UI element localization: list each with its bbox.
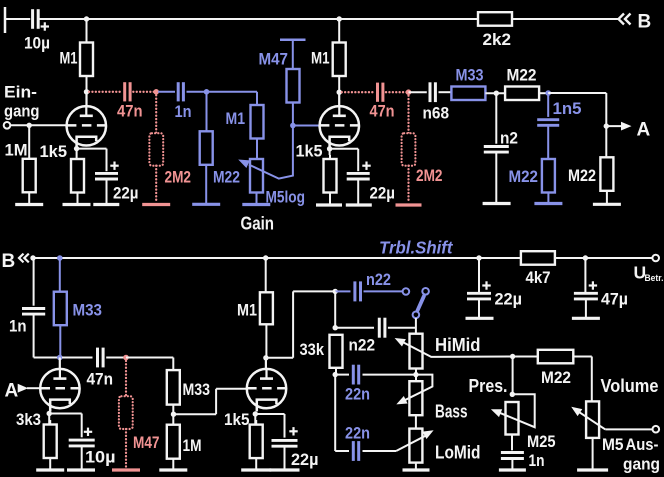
svg-text:47n: 47n	[117, 102, 143, 121]
svg-text:M47: M47	[133, 433, 160, 452]
svg-text:1n: 1n	[9, 317, 27, 336]
arrow A out	[621, 122, 632, 131]
svg-text:gang: gang	[4, 102, 40, 121]
ground blue M22	[192, 203, 220, 206]
wire anode node into tube V1	[85, 92, 87, 116]
svg-text:47n: 47n	[87, 370, 114, 389]
resistor M33 (blue, V3 anode load)	[54, 292, 102, 326]
wiper Bass	[396, 375, 432, 405]
resistor M47 (red dashed)	[119, 396, 160, 452]
resistor M33 (V3 load divider)	[167, 370, 210, 405]
ground red 2M2 b	[396, 203, 422, 206]
wiper Pres	[491, 394, 535, 427]
svg-text:gang: gang	[623, 455, 660, 474]
wire input to V1 grid	[10, 124, 67, 126]
wire 1n to A row	[34, 314, 60, 358]
wire n68 to M33	[439, 91, 452, 93]
wire node to M22 out	[513, 356, 538, 358]
wire red dotted node A2 down	[407, 92, 409, 133]
svg-text:10µ: 10µ	[24, 34, 50, 53]
wire switch to HiMid	[415, 318, 417, 334]
wire cathode to 1k5 V4	[254, 414, 257, 425]
wire junction to V4 grid	[174, 389, 247, 414]
resistor M22 (blue, gain divider)	[200, 131, 240, 186]
node HiMid wiper M22 out	[510, 354, 515, 359]
svg-text:HiMid: HiMid	[435, 335, 481, 355]
node blue gain top	[204, 89, 210, 95]
svg-text:M1: M1	[311, 49, 330, 68]
wire blue M22 shunt to ground	[547, 193, 549, 203]
wire top supply rail	[38, 18, 478, 20]
svg-text:22µ: 22µ	[291, 450, 319, 469]
resistor M47 (blue)	[259, 50, 300, 103]
wire node A2 to n68	[409, 91, 427, 93]
ground 1M	[15, 203, 43, 206]
potentiometer M5log (Gain pot)	[250, 159, 305, 207]
node red A3	[123, 355, 129, 361]
node M33 1M junction	[171, 412, 176, 417]
capacitor 1n (blue)	[175, 82, 192, 121]
wire red dotted 2M2 to ground	[155, 166, 157, 203]
svg-text:Betr.: Betr.	[645, 273, 664, 284]
capacitor n68	[423, 82, 450, 122]
wire arrow to A	[606, 125, 623, 127]
svg-text:M25: M25	[527, 432, 556, 451]
resistor 1M (divider)	[167, 425, 202, 459]
svg-text:22n: 22n	[345, 385, 370, 404]
node V2 cathode	[327, 146, 332, 151]
resistor M1 (V1 anode load)	[60, 43, 94, 77]
capacitor 1n5 (blue)	[537, 99, 581, 125]
wire top supply rail left end bar	[4, 7, 7, 33]
wire blue node right and down	[207, 92, 258, 105]
resistor M22 (horizontal, filter)	[505, 66, 539, 101]
svg-text:M47: M47	[259, 50, 289, 69]
svg-text:M1: M1	[237, 301, 257, 320]
capacitor 22n (blue, upper)	[345, 365, 370, 404]
wire A arrow to V3 grid	[27, 387, 40, 389]
ground 22u V4	[270, 468, 300, 471]
ground 3k3	[36, 468, 64, 471]
node M1b top	[337, 16, 342, 21]
potentiometer Volume	[586, 376, 658, 438]
capacitor 1n (Pres)	[501, 432, 556, 470]
off-page chevron B top right	[619, 14, 631, 25]
capacitor 22n (blue, lower)	[345, 424, 370, 461]
node HiMid bottom	[413, 372, 418, 377]
wire blue grid node to V2	[293, 125, 320, 127]
ground M22 end	[593, 203, 621, 206]
svg-text:M22: M22	[568, 166, 596, 185]
node blue V2 grid	[290, 123, 296, 129]
ground 47u rail	[572, 317, 600, 320]
node V4 anode	[263, 355, 268, 360]
wire red dotted 47n to node A2	[386, 91, 409, 93]
potentiometer Bass	[409, 381, 467, 421]
wire blue down to 1n5	[547, 93, 549, 117]
wire node to R 1M	[28, 125, 30, 159]
label U Betr.	[634, 263, 664, 285]
wire 4k7 to U	[556, 257, 652, 259]
svg-text:M33: M33	[73, 301, 103, 320]
svg-text:Ein-: Ein-	[4, 83, 37, 102]
wire blue node to A corner	[548, 93, 606, 126]
wire red dotted node down	[155, 92, 157, 133]
triode V4	[247, 368, 286, 411]
svg-text:47µ: 47µ	[601, 290, 628, 309]
svg-text:1n: 1n	[175, 102, 192, 121]
wire blue B rail to M33	[59, 258, 61, 292]
node V4 cathode	[253, 411, 258, 416]
resistor 33k	[300, 335, 343, 368]
wire 1n Pres to ground	[511, 459, 513, 470]
wire 1k5 V2 to ground	[329, 193, 331, 205]
ground red 2M2	[142, 203, 170, 206]
wire B rail to M1c	[265, 258, 267, 292]
capacitor n2	[484, 129, 518, 153]
wiper HiMid	[395, 338, 513, 357]
svg-text:n68: n68	[423, 104, 450, 123]
wire M22 end to ground	[606, 191, 608, 203]
node tone stack top	[333, 289, 338, 294]
svg-text:1M: 1M	[183, 436, 202, 455]
svg-text:22µ: 22µ	[370, 184, 396, 203]
wire cathode node to 1k5	[76, 149, 78, 159]
wire 22u V2 to ground	[357, 179, 359, 204]
node V1 anode	[84, 89, 89, 94]
switch lever Trbl.Shift	[418, 296, 424, 310]
wire cathode to 1k5 V2	[329, 149, 331, 159]
wire blue node to n22 cap	[335, 290, 350, 292]
wire 10u to ground	[81, 446, 83, 469]
node 33k bottom	[333, 372, 338, 377]
ground n2	[483, 202, 511, 205]
wire blue node to 1n	[158, 91, 175, 93]
terminal switch pole	[403, 288, 410, 295]
wire Pres to 1n	[511, 435, 513, 451]
triode V1	[67, 106, 106, 149]
wire blue n22 to switch	[364, 290, 403, 292]
wire blue bar to M47	[292, 40, 294, 69]
node input 1M junction	[27, 123, 32, 128]
wire rail to R M1a	[86, 19, 88, 43]
svg-text:1k5: 1k5	[224, 410, 250, 429]
svg-text:Aus-: Aus-	[626, 435, 659, 454]
ground 10u	[67, 468, 95, 471]
svg-text:2k2: 2k2	[483, 30, 512, 49]
ground 22u rail	[466, 317, 494, 320]
capacitor 22µ (V4 cathode bypass)	[272, 427, 319, 469]
ground 22u V2	[346, 203, 372, 206]
wire red dotted 47n to node	[133, 91, 156, 93]
svg-text:1M: 1M	[5, 141, 28, 160]
label Trbl.Shift	[379, 238, 454, 258]
wire node to n22 white	[335, 327, 374, 329]
resistor M1 (V2 anode load)	[311, 43, 346, 77]
svg-text:47n: 47n	[370, 102, 395, 121]
wire n2 to ground	[495, 152, 497, 202]
resistor 1k5 (V2 cathode)	[296, 142, 337, 193]
label M5 Ausgang	[602, 435, 660, 474]
terminal switch arm end	[413, 312, 420, 319]
svg-text:22n: 22n	[345, 424, 370, 443]
svg-text:1k5: 1k5	[296, 142, 323, 161]
wire red node to M33b	[126, 358, 173, 371]
wire blue pot to ground	[256, 193, 258, 204]
resistor M22 (output series)	[538, 350, 574, 387]
svg-text:M33: M33	[183, 380, 211, 399]
wire cathode node to 22u V4	[255, 414, 284, 438]
wire cathode node to 22u	[77, 149, 107, 172]
wire blue node down to M22	[206, 92, 208, 132]
node Pres top	[510, 392, 515, 397]
svg-text:22µ: 22µ	[113, 184, 139, 203]
resistor M22 (end shunt)	[568, 157, 613, 191]
wire 22u V4 to ground	[284, 446, 286, 469]
resistor 4k7 (series in B rail)	[521, 251, 555, 287]
label A (bottom left)	[5, 381, 19, 402]
wire red dotted M47 to ground	[125, 429, 127, 469]
resistor 1k5 (V1 cathode)	[40, 142, 85, 193]
ground blue M5log	[242, 203, 270, 206]
wire A node to M22 end	[605, 126, 607, 157]
wire blue M1 to pot	[256, 139, 258, 160]
ground blue M22 shunt	[534, 202, 562, 205]
arrow A in	[18, 384, 29, 393]
wire Volume to ground	[592, 438, 594, 469]
wire blue M22 to ground	[205, 165, 207, 203]
wire 22n lower row	[335, 375, 396, 451]
wire blue M47 to grid node	[292, 103, 294, 126]
svg-text:M22: M22	[507, 66, 537, 85]
svg-text:Bass: Bass	[435, 402, 468, 422]
svg-text:M33: M33	[456, 66, 484, 85]
wire 3k3 to ground	[49, 458, 51, 469]
node B rail M1c	[263, 255, 268, 260]
svg-text:M22: M22	[213, 168, 240, 187]
wire top rail to 10u cap	[5, 18, 30, 20]
svg-text:2M2: 2M2	[416, 166, 443, 185]
label B (top right)	[638, 12, 652, 33]
label A (top right)	[637, 120, 651, 141]
ground 1k5 V1	[63, 203, 91, 206]
resistor M33 (blue, horizontal)	[451, 66, 485, 101]
wire tone top down to 33k	[334, 291, 336, 327]
wire M1b to anode node	[338, 76, 340, 92]
wire 47u rail to ground	[585, 299, 587, 317]
wire V1 cathode to node	[0, 0, 1, 1]
svg-text:3k3: 3k3	[16, 410, 41, 429]
node red A2	[406, 89, 412, 95]
wire rail to R M1b	[338, 19, 340, 43]
svg-text:M1: M1	[60, 49, 78, 68]
wire 22u rail to ground	[478, 299, 480, 317]
wire blue 1n to node	[187, 91, 207, 93]
capacitor 22µ (V1 cathode bypass)	[95, 162, 139, 203]
triode V3	[40, 368, 79, 411]
wire 47n to red node	[106, 357, 126, 359]
wire M33 junction	[172, 405, 174, 425]
wire n22 white to HiMid line	[388, 327, 416, 329]
wire 22n row	[335, 374, 416, 376]
wire filter node down to n2	[495, 93, 497, 144]
svg-text:M1: M1	[226, 109, 246, 128]
terminal Ausgang	[653, 426, 660, 433]
resistor 2M2 (red dashed, stage2)	[402, 133, 443, 185]
resistor 2M2 (red dashed)	[149, 133, 191, 186]
wire M22 to blue node	[539, 92, 548, 94]
wire red dotted 2M2b to ground	[407, 166, 409, 203]
svg-text:M5log: M5log	[266, 188, 306, 207]
capacitor 47µ (B rail filter)	[574, 258, 628, 309]
potentiometer HiMid	[410, 334, 481, 369]
ground Volume	[577, 468, 608, 471]
svg-text:B: B	[2, 251, 16, 272]
wire M22 out to Volume	[573, 357, 592, 402]
resistor M1 (blue, gain)	[226, 105, 264, 139]
wire LoMid to ground	[415, 463, 417, 469]
wire Pres node down	[512, 357, 514, 395]
wire M1c to anode node	[265, 324, 267, 358]
svg-text:1n: 1n	[529, 451, 545, 470]
wire anode node into tube V4	[265, 358, 267, 379]
label Eingang	[4, 83, 40, 121]
node A takeoff	[604, 123, 609, 128]
resistor 1k5 (V4 cathode)	[224, 410, 263, 458]
wire B supply rail	[33, 257, 521, 259]
svg-text:1k5: 1k5	[40, 142, 68, 161]
node B rail 22u	[476, 255, 481, 260]
ground 1M b	[159, 468, 187, 471]
capacitor 22µ (B rail filter)	[467, 258, 522, 309]
wire HiMid to Bass node	[415, 369, 417, 382]
node B rail start	[30, 255, 35, 260]
wire 33k to node	[335, 368, 337, 375]
terminal bar M47 top (blue)	[280, 38, 306, 41]
wire anode node into tube V2	[338, 92, 340, 116]
wire 22u to ground	[106, 179, 108, 204]
resistor M22 (blue, shunt)	[509, 159, 555, 193]
resistor 3k3 (V3 cathode)	[16, 410, 57, 458]
potentiometer LoMid	[409, 429, 480, 463]
wire cathode to 3k3	[49, 414, 50, 425]
wire M1a to anode node	[86, 76, 88, 92]
wire M33 to node	[485, 92, 505, 94]
node 33k top	[333, 325, 338, 330]
svg-text:M5: M5	[602, 435, 624, 454]
wire cathode node to 22u V2	[330, 149, 359, 171]
svg-text:n22: n22	[366, 270, 391, 289]
svg-text:1n5: 1n5	[553, 99, 582, 118]
wire 1M to ground	[172, 459, 174, 469]
node M1a top	[84, 16, 89, 21]
svg-text:A: A	[637, 120, 651, 141]
node B rail 47u	[583, 255, 588, 260]
wire cathode node to 10u	[49, 414, 81, 438]
wiper LoMid	[396, 430, 434, 451]
wire 1M to ground	[28, 192, 30, 204]
wire red dotted anode to 47n	[89, 91, 122, 93]
label B (bottom left)	[2, 251, 16, 272]
node V3 cathode	[47, 411, 52, 416]
terminal U Betr	[652, 255, 659, 262]
wiper Volume	[571, 407, 605, 430]
svg-text:10µ: 10µ	[85, 448, 116, 467]
terminal switch contact	[422, 288, 429, 295]
ground 1k5 V4	[241, 468, 271, 471]
node B rail M33 blue	[57, 255, 63, 261]
ground 22u V1	[93, 203, 119, 206]
ground LoMid	[403, 468, 430, 471]
label Gain	[241, 214, 275, 234]
capacitor 10µ (V3 cathode bypass)	[69, 428, 116, 467]
capacitor 47n (V3 coupling)	[87, 348, 114, 389]
node red A1	[153, 89, 159, 95]
wire Bass to LoMid	[415, 415, 417, 428]
ground red M47	[112, 468, 140, 471]
wire Volume wiper to Ausgang	[605, 428, 652, 430]
wire V4 anode up to tone stack	[266, 291, 335, 357]
svg-text:A: A	[5, 381, 19, 402]
svg-text:Volume: Volume	[601, 376, 659, 396]
resistor 1M (grid leak)	[5, 141, 36, 193]
node blue 1n5 top	[545, 90, 551, 96]
wire anode node into tube V3	[59, 358, 61, 378]
capacitor 47n (red, V1 coupling)	[117, 82, 143, 120]
potentiometer Pres.	[469, 376, 519, 435]
wire rail to B out	[512, 18, 618, 20]
svg-text:Trbl.Shift: Trbl.Shift	[379, 238, 454, 258]
svg-text:M22: M22	[509, 167, 539, 186]
svg-text:2M2: 2M2	[165, 168, 192, 187]
wiper M5log arrow	[238, 126, 293, 179]
wire 1k5 V4 to ground	[255, 458, 257, 469]
node V1 cathode	[74, 146, 79, 151]
capacitor 1n (anode bypass)	[9, 309, 45, 336]
node V2 anode	[337, 90, 342, 95]
svg-text:4k7: 4k7	[526, 268, 551, 287]
capacitor n22 (blue, Trbl.Shift)	[355, 270, 391, 301]
node V3 anode (blue)	[57, 355, 63, 361]
svg-text:B: B	[638, 12, 652, 33]
svg-text:M22: M22	[541, 368, 571, 387]
svg-text:22µ: 22µ	[495, 290, 523, 309]
wire blue M33 to anode node	[59, 325, 61, 357]
off-page chevron B bottom left	[19, 254, 29, 263]
resistor 2k2 (series in rail)	[478, 12, 512, 49]
wire red dotted V2 anode to 47n	[342, 91, 375, 93]
svg-text:Gain: Gain	[241, 214, 275, 234]
ground 1k5 V2	[316, 203, 342, 206]
node mid filter	[494, 91, 499, 96]
resistor M1 (V4 anode load)	[237, 292, 273, 324]
terminal input Eingang	[4, 122, 11, 129]
wire anode node to 47n	[62, 357, 93, 359]
wire red dotted M47 down	[125, 358, 127, 397]
wire 1k5 to ground	[77, 193, 79, 205]
svg-text:n22: n22	[349, 336, 376, 355]
triode V2	[320, 106, 359, 149]
wire blue 1n5 to M22	[547, 125, 549, 159]
wire B node down to 1n	[33, 258, 35, 306]
capacitor 22µ (V2 cathode bypass)	[347, 162, 395, 203]
capacitor 47n (red, V2 coupling)	[370, 83, 395, 121]
ground Pres 1n	[499, 468, 526, 471]
capacitor C 10µ (series, polarized)	[24, 9, 50, 52]
svg-text:33k: 33k	[300, 340, 325, 359]
svg-text:LoMid: LoMid	[435, 443, 481, 463]
capacitor n22 (slope)	[349, 318, 385, 355]
